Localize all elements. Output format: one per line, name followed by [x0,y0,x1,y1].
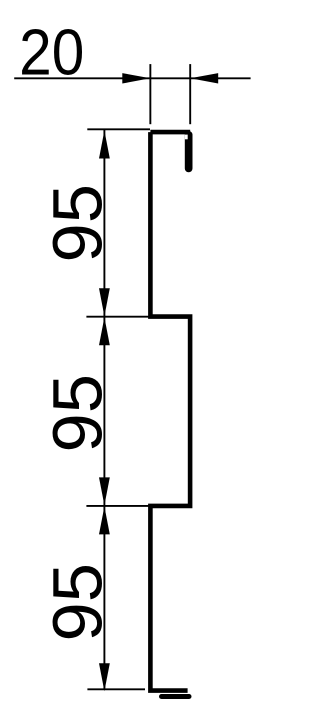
vertical dimension line [103,130,105,689]
svg-text:95: 95 [39,374,117,453]
dimension line for 20 [14,77,250,79]
profile main outline [150,132,190,691]
extension line right of 20 dim [189,64,191,124]
profile bottom hem fold [162,694,190,699]
arrow down at bottom [99,663,110,691]
hook hem white notch [185,135,188,140]
arrowhead left-pointing at right extension [190,73,218,83]
extension line step2 (y=505.9) [86,505,150,507]
arrow down above step1 [99,288,110,316]
arrowhead right-pointing at left extension [122,73,150,83]
arrow up at top [99,131,110,159]
arrow up below step2 [99,506,110,534]
svg-text:95: 95 [39,184,117,262]
extension line step1 (y=316.7) [86,316,150,318]
extension line bottom (y=689.3) [87,688,145,690]
svg-text:95: 95 [39,563,117,642]
extension line top (y=129) [87,128,150,130]
arrow up below step1 [99,317,110,345]
arrow down above step2 [99,477,110,505]
extension line left of 20 dim [149,64,151,124]
profile top hook hemmed lip [185,131,193,172]
